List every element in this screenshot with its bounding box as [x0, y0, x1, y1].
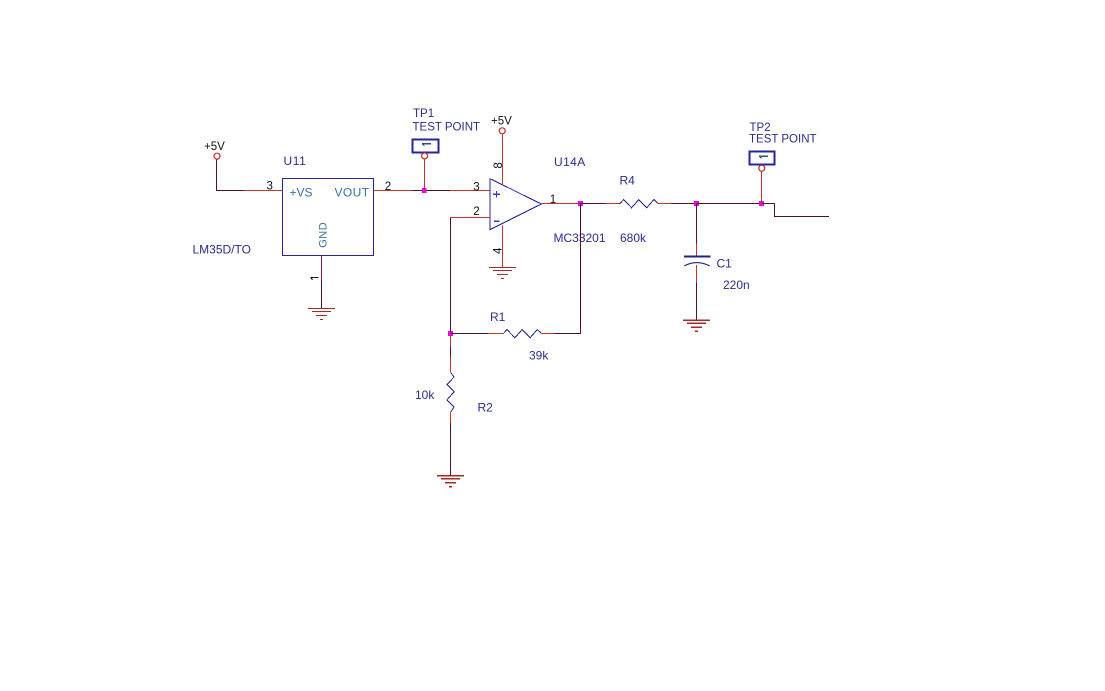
pin number 8 (op-amp, rotated) — [493, 162, 505, 168]
wire output stub with step — [762, 204, 830, 217]
wire R2 bottom to ground — [450, 412, 452, 475]
svg-text:TEST POINT: TEST POINT — [749, 133, 817, 145]
resistor R2 body — [447, 372, 454, 412]
svg-text:3: 3 — [473, 181, 479, 193]
svg-text:LM35D/TO: LM35D/TO — [193, 243, 251, 257]
wire TP2 to output node — [761, 171, 763, 203]
wire +5V to op-amp pin 8 — [502, 134, 504, 184]
test point TP1 symbol — [413, 140, 439, 159]
node junction at TP2 tap — [759, 201, 764, 206]
IC U11 body — [283, 179, 374, 256]
test point TP2 labels — [749, 122, 817, 146]
svg-text:R2: R2 — [478, 401, 494, 415]
resistor R2 designator — [478, 401, 494, 415]
svg-text:U14A: U14A — [554, 155, 586, 169]
pin number 1 (op-amp output) — [550, 194, 556, 206]
svg-text:+5V: +5V — [204, 141, 225, 153]
svg-text:39k: 39k — [529, 349, 549, 363]
op-amp U14A triangle — [490, 179, 542, 230]
resistor R1 designator — [490, 310, 506, 324]
wire op-amp output pin 1 — [541, 203, 580, 205]
svg-text:+5V: +5V — [491, 115, 512, 127]
U11 value label LM35D/TO — [193, 243, 251, 257]
pin number 1 (U11, rotated) — [310, 278, 318, 280]
svg-text:TP1: TP1 — [413, 108, 434, 120]
svg-text:1: 1 — [550, 194, 556, 206]
wire inverting input vertical — [450, 218, 452, 334]
op-amp value label MC33201 — [554, 231, 606, 245]
svg-text:R1: R1 — [490, 310, 506, 324]
wire op-amp pin 2 stub — [451, 217, 490, 219]
svg-text:U11: U11 — [284, 154, 307, 168]
capacitor C1 body — [684, 257, 711, 266]
svg-text:2: 2 — [473, 206, 479, 218]
resistor R2 value 10k — [415, 388, 435, 402]
U14A reference designator — [554, 155, 586, 169]
svg-text:3: 3 — [267, 180, 273, 192]
wire C1 top lead — [696, 204, 698, 256]
wire output junction to R4 — [581, 203, 620, 205]
wire junction to R2 top — [450, 334, 452, 373]
test point TP2 symbol — [750, 152, 775, 172]
wire op-amp pin 4 to ground — [502, 225, 504, 267]
svg-text:MC33201: MC33201 — [554, 231, 606, 245]
wire U11 pin 1 to ground — [321, 256, 323, 309]
node junction at C1 tap — [694, 201, 699, 206]
pin number 2 (op-amp) — [473, 206, 479, 218]
wire junction to R1 — [451, 333, 504, 335]
ground below C1 — [683, 320, 710, 331]
wire C1 node to TP2 node — [697, 203, 762, 205]
wire +5V to U11 pin 3 — [217, 159, 283, 190]
ground below R2 — [437, 476, 464, 487]
pin number 4 (op-amp, rotated) — [493, 247, 505, 254]
node junction at output feedback tap — [578, 201, 583, 206]
pin number 3 (U11) — [267, 180, 273, 192]
wire R1 to feedback vertical — [541, 333, 581, 335]
ground below op-amp — [489, 268, 516, 279]
power +5V symbol P1 — [204, 141, 225, 159]
resistor R4 designator — [620, 174, 636, 188]
ground below U11 — [308, 309, 335, 320]
wire TP1 to input net — [424, 159, 426, 190]
test point TP1 labels — [413, 108, 481, 134]
resistor R1 body — [503, 330, 541, 338]
svg-text:680k: 680k — [620, 231, 647, 245]
svg-text:TEST POINT: TEST POINT — [413, 122, 481, 134]
svg-text:R4: R4 — [620, 174, 636, 188]
resistor R4 value 680k — [620, 231, 647, 245]
node junction at R1/R2 tap — [448, 331, 453, 336]
resistor R1 value 39k — [529, 349, 549, 363]
wire R4 to output node — [658, 203, 697, 205]
pin number 3 (op-amp) — [473, 181, 479, 193]
capacitor C1 designator — [717, 257, 733, 271]
svg-text:TP2: TP2 — [750, 122, 771, 134]
wire C1 bottom lead to ground — [696, 265, 698, 320]
svg-text:8: 8 — [493, 162, 505, 168]
wire U11 VOUT to op-amp pin 3 — [374, 190, 490, 192]
svg-text:GND: GND — [318, 222, 330, 248]
capacitor C1 value 220n — [723, 278, 750, 292]
svg-text:+VS: +VS — [290, 186, 313, 200]
svg-text:10k: 10k — [415, 388, 435, 402]
svg-text:220n: 220n — [723, 278, 750, 292]
svg-text:VOUT: VOUT — [335, 186, 370, 200]
U11 reference designator — [284, 154, 307, 168]
resistor R4 body — [620, 200, 658, 208]
power +5V symbol P2 (op-amp supply) — [491, 115, 512, 133]
node junction at TP1 tap — [422, 188, 427, 193]
svg-text:C1: C1 — [717, 257, 733, 271]
wire feedback vertical from output junction — [580, 204, 582, 334]
pin number 2 (U11) — [385, 181, 391, 193]
